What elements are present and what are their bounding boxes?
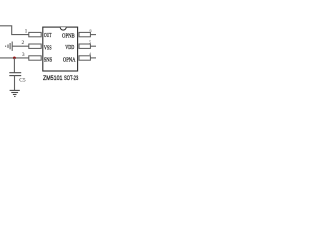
svg-text:5: 5 xyxy=(89,40,91,45)
svg-text:OPNA: OPNA xyxy=(63,57,76,64)
pin box 4 (OPNA) xyxy=(79,56,90,60)
IC U1 body (ZM5101) xyxy=(43,27,78,71)
pin box 1 (OUT) xyxy=(29,32,41,36)
pin box 3 (SNS) xyxy=(29,56,41,60)
svg-text:VDD: VDD xyxy=(65,44,74,51)
wire from ground to pin 2 (VSS) xyxy=(12,45,29,47)
pin-1 indicator notch xyxy=(60,27,66,30)
wire from input to pin 1 (OUT) xyxy=(0,26,29,35)
capacitor C5 xyxy=(9,73,21,76)
svg-text:SOT-23: SOT-23 xyxy=(64,75,79,82)
pin box 5 (VDD) xyxy=(79,44,90,48)
wire stub pin 5 xyxy=(90,45,96,47)
wire stub pin 6 xyxy=(90,34,96,36)
wire from left edge to pin 3 (SNS) xyxy=(0,57,29,59)
ground (below C5) xyxy=(10,90,20,96)
svg-text:OUT: OUT xyxy=(44,32,51,39)
svg-text:OPNB: OPNB xyxy=(62,32,75,39)
pin box 6 (OPNB) xyxy=(79,32,90,36)
svg-text:SNS: SNS xyxy=(44,56,53,63)
pin box 2 (VSS) xyxy=(29,44,41,48)
wire stub pin 4 xyxy=(90,57,96,59)
svg-text:2: 2 xyxy=(22,40,25,46)
ground (sideways, on VSS wire) xyxy=(6,42,13,51)
svg-text:6: 6 xyxy=(90,28,92,33)
svg-text:VSS: VSS xyxy=(44,44,52,51)
wire capacitor C5 to ground xyxy=(14,76,16,91)
svg-text:3: 3 xyxy=(22,52,25,58)
node junction (red dot) xyxy=(13,57,16,60)
svg-text:ZM5101: ZM5101 xyxy=(43,75,63,82)
svg-text:C5: C5 xyxy=(19,77,26,83)
wire junction to capacitor C5 xyxy=(13,58,15,73)
svg-text:1: 1 xyxy=(25,29,28,35)
